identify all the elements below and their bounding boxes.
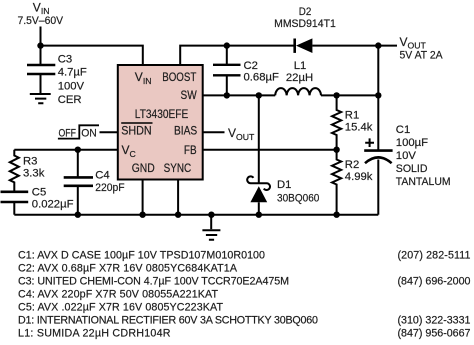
svg-text:C4: AVX 220pF X7R 50V 08055A22: C4: AVX 220pF X7R 50V 08055A221KAT	[18, 289, 218, 301]
node ground rail dot	[208, 212, 214, 218]
ground under C3	[30, 94, 51, 103]
label C1	[396, 124, 451, 188]
svg-text:TANTALUM: TANTALUM	[396, 176, 451, 188]
switch OFF/ON symbol	[58, 125, 99, 138]
svg-text:0.022µF: 0.022µF	[32, 198, 74, 210]
svg-text:VOUT: VOUT	[228, 126, 255, 142]
svg-text:SYNC: SYNC	[164, 161, 192, 175]
node GND rail dot	[139, 212, 145, 218]
wire D2 to VOUT	[312, 45, 397, 47]
wire L1 to VOUT line	[321, 94, 378, 96]
node L1 out junction	[375, 92, 381, 98]
label R2	[345, 159, 373, 183]
svg-text:C3: UNITED CHEMI-CON 4.7µF 100: C3: UNITED CHEMI-CON 4.7µF 100V TCCR70E2…	[18, 276, 289, 288]
svg-text:OFF: OFF	[59, 127, 76, 139]
svg-text:C1: AVX D CASE 100µF 10V TPSD1: C1: AVX D CASE 100µF 10V TPSD107M010R010…	[18, 250, 265, 262]
wire SW run	[203, 94, 276, 96]
svg-text:MMSD914T1: MMSD914T1	[274, 18, 336, 30]
node VOUT junction	[375, 42, 381, 48]
svg-text:L1: SUMIDA 22µH CDRH104R: L1: SUMIDA 22µH CDRH104R	[18, 328, 171, 340]
svg-text:VIN: VIN	[33, 0, 50, 16]
wire VIN vertical drop	[40, 27, 42, 66]
capacitor C1	[364, 149, 392, 152]
node R1 top	[333, 92, 339, 98]
svg-text:C4: C4	[95, 169, 109, 181]
node D1 bottom	[256, 212, 262, 218]
svg-text:SOLID: SOLID	[396, 163, 428, 175]
svg-text:C5: AVX .022µF X7R 16V 0805YC2: C5: AVX .022µF X7R 16V 0805YC223KAT	[18, 302, 223, 314]
svg-text:C5: C5	[32, 187, 46, 199]
op-amp U1 LT3430EFE IC body	[118, 65, 203, 180]
node C4 top	[75, 147, 81, 153]
wire SHDN	[100, 131, 118, 133]
node BIAS VOUT label	[228, 126, 255, 142]
node VOUT label	[400, 35, 444, 62]
svg-text:BIAS: BIAS	[174, 124, 197, 138]
wire C1 to bottom rail	[377, 160, 379, 215]
node VIN junction	[37, 42, 43, 48]
wire top-left rail to VIN pin	[41, 46, 143, 65]
capacitor C2	[226, 46, 228, 96]
capacitor C5	[1, 192, 29, 202]
svg-text:SW: SW	[181, 88, 198, 102]
svg-text:C2: AVX 0.68µF X7R 16V 0805YC6: C2: AVX 0.68µF X7R 16V 0805YC684KAT1A	[18, 263, 238, 275]
label IC part number	[121, 70, 197, 175]
wire C3 to ground	[40, 74, 42, 93]
svg-text:4.99k: 4.99k	[345, 171, 373, 183]
wire VOUT vertical to C1	[377, 46, 379, 151]
wire BIAS to VOUT label	[203, 131, 225, 133]
label D2	[274, 6, 336, 30]
pin SHDN overline	[121, 122, 152, 124]
label component list	[18, 250, 471, 340]
ground main symbol	[210, 215, 212, 230]
svg-text:FB: FB	[184, 143, 197, 157]
node D1 top	[256, 92, 262, 98]
wire BOOST riser and top rail	[180, 46, 293, 65]
svg-text:R3: R3	[23, 155, 37, 167]
svg-text:ON: ON	[81, 127, 97, 139]
node FB junction	[333, 147, 339, 153]
label L1 value	[286, 60, 313, 84]
svg-text:0.68µF: 0.68µF	[244, 71, 279, 83]
svg-text:15.4k: 15.4k	[345, 121, 373, 133]
label C5	[32, 187, 74, 211]
svg-text:220pF: 220pF	[95, 182, 124, 194]
resistor R3	[10, 150, 19, 192]
capacitor C3	[27, 65, 55, 74]
node R2 bottom	[333, 212, 339, 218]
svg-text:D1: INTERNATIONAL RECTIFIER 60: D1: INTERNATIONAL RECTIFIER 60V 3A SCHOT…	[18, 315, 318, 327]
svg-text:22µH: 22µH	[286, 72, 313, 84]
wire FB run	[203, 149, 337, 151]
diode D1 30BQ060	[258, 95, 260, 183]
svg-text:(847) 696-2000: (847) 696-2000	[398, 276, 471, 288]
wire bottom rail	[14, 214, 378, 216]
svg-text:R2: R2	[345, 159, 359, 171]
svg-text:7.5V–60V: 7.5V–60V	[18, 15, 64, 27]
svg-text:C1: C1	[396, 124, 410, 136]
svg-text:R1: R1	[345, 109, 359, 121]
svg-text:100µF: 100µF	[396, 137, 428, 149]
wire VC run	[14, 149, 118, 151]
wire GND pin	[142, 180, 144, 215]
svg-text:LT3430EFE: LT3430EFE	[135, 107, 189, 121]
svg-text:BOOST: BOOST	[162, 70, 197, 84]
svg-text:GND: GND	[132, 161, 155, 175]
label R3	[23, 155, 45, 179]
node VIN input label	[18, 0, 64, 27]
label C2 value	[244, 60, 279, 83]
inductor L1	[275, 88, 321, 95]
svg-text:100V: 100V	[58, 80, 85, 92]
svg-text:SHDN: SHDN	[121, 124, 152, 138]
node C2 top	[224, 42, 230, 48]
node C2 bottom	[224, 92, 230, 98]
resistor R1	[332, 95, 341, 149]
svg-text:L1: L1	[294, 60, 307, 72]
wire SYNC pin	[177, 180, 179, 215]
svg-text:D2: D2	[299, 6, 312, 18]
svg-text:10V: 10V	[396, 150, 417, 162]
label D1	[277, 179, 319, 204]
label C4	[95, 169, 124, 194]
node SYNC rail dot	[175, 212, 181, 218]
diode D2	[293, 39, 296, 53]
label R1	[345, 109, 373, 133]
svg-text:D1: D1	[277, 179, 291, 191]
svg-text:VOUT: VOUT	[400, 35, 427, 51]
svg-text:(310) 322-3331: (310) 322-3331	[398, 315, 471, 327]
svg-text:(847) 956-0667: (847) 956-0667	[398, 328, 471, 340]
node C4 bottom	[75, 212, 81, 218]
svg-text:C3: C3	[58, 54, 72, 66]
capacitor C1 plus sign	[365, 138, 374, 147]
svg-text:(207) 282-5111: (207) 282-5111	[398, 250, 471, 262]
svg-text:CER: CER	[58, 94, 82, 106]
label C3 value	[58, 54, 87, 106]
resistor R2	[332, 150, 341, 215]
svg-text:5V AT 2A: 5V AT 2A	[400, 49, 444, 61]
capacitor C4	[77, 150, 79, 215]
svg-text:3.3k: 3.3k	[23, 167, 45, 179]
svg-text:30BQ060: 30BQ060	[277, 192, 319, 204]
svg-text:4.7µF: 4.7µF	[58, 66, 87, 78]
